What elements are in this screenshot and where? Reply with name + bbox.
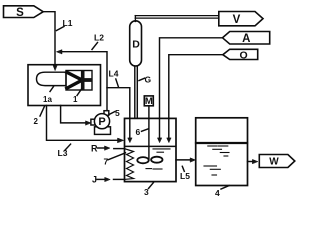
svg-text:1: 1 xyxy=(73,95,78,104)
label 5 xyxy=(110,108,121,118)
liquid surface tank 3 xyxy=(125,145,176,147)
box 2 (lamp housing) xyxy=(28,65,101,106)
wire A to tank 3 xyxy=(157,38,222,143)
flash element 1 xyxy=(66,71,92,91)
svg-text:V: V xyxy=(233,14,241,26)
wire L1 (S to box 2) xyxy=(43,12,72,71)
wire L2 (pump riser to L1 line) xyxy=(57,33,108,111)
stirrer propeller 6 xyxy=(137,157,162,164)
svg-text:4: 4 xyxy=(215,188,220,198)
vessel D xyxy=(130,21,142,66)
svg-text:J: J xyxy=(92,175,97,185)
outlet wire to W xyxy=(248,159,258,163)
liquid dashes tank 4 xyxy=(204,146,229,175)
svg-text:L3: L3 xyxy=(58,148,68,158)
svg-text:S: S xyxy=(16,7,24,19)
label 7 xyxy=(104,153,126,167)
svg-text:O: O xyxy=(240,49,248,61)
flag V xyxy=(219,12,263,26)
label 3 xyxy=(144,183,154,198)
tube G (double line, D to tank 3) xyxy=(135,66,138,118)
stirrer shaft xyxy=(148,106,150,160)
svg-text:3: 3 xyxy=(144,187,149,197)
svg-text:G: G xyxy=(145,75,152,85)
tube D to V (double line) xyxy=(135,16,219,22)
wire L3 (box 2 to tank 3) xyxy=(47,106,124,159)
wire L4 (riser to tank 3) xyxy=(107,69,132,143)
liquid surface tank 4 xyxy=(196,142,247,144)
svg-text:L4: L4 xyxy=(109,69,119,79)
pump P (5) xyxy=(91,111,111,135)
flag W xyxy=(259,155,295,168)
svg-text:6: 6 xyxy=(136,127,141,137)
label 6 xyxy=(136,127,149,137)
svg-text:D: D xyxy=(132,39,140,51)
wire L5 (tank 3 to tank 4) xyxy=(176,158,195,181)
coil 7 (zigzag) xyxy=(125,149,134,180)
svg-text:W: W xyxy=(269,157,279,168)
svg-text:P: P xyxy=(98,116,105,128)
svg-text:L2: L2 xyxy=(94,33,104,43)
flag A xyxy=(223,32,270,46)
flag O xyxy=(223,49,258,61)
inlet J xyxy=(92,175,125,185)
liquid dashes tank 3 xyxy=(146,149,170,169)
label 2 xyxy=(34,106,45,126)
label 1a xyxy=(43,87,54,105)
label G xyxy=(139,75,152,85)
label 4 xyxy=(215,186,229,198)
motor M xyxy=(144,96,153,107)
label 1 xyxy=(73,89,82,104)
lamp 1a (capsule) xyxy=(37,72,67,85)
tank 4 xyxy=(196,118,248,186)
svg-text:L5: L5 xyxy=(180,171,190,181)
wire box 2 to pump P xyxy=(61,106,91,126)
flag S xyxy=(4,6,44,19)
svg-text:A: A xyxy=(242,33,250,45)
tank 3 xyxy=(125,118,177,181)
svg-text:1a: 1a xyxy=(43,95,52,104)
svg-text:5: 5 xyxy=(115,108,120,118)
svg-text:2: 2 xyxy=(34,117,39,126)
svg-text:7: 7 xyxy=(104,156,109,166)
wire O to tank 3 xyxy=(167,55,223,143)
svg-text:L1: L1 xyxy=(63,18,73,28)
inlet R xyxy=(91,144,125,154)
